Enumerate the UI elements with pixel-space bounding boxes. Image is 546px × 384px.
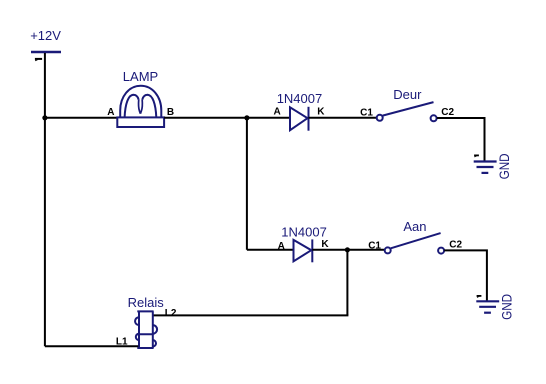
svg-text:C2: C2 [449,239,462,250]
wire: bottom horizontal from rail to relay L1 [45,345,138,347]
node junction branch to second row [244,115,249,120]
switch Deur lever [383,102,434,116]
svg-text:Relais: Relais [128,295,165,310]
ground GND2 pin number 1 (rotated) [477,295,482,297]
svg-text:LAMP: LAMP [123,69,158,84]
pin number 1 of +12V (rotated) [35,58,42,60]
wire: Aan C2 to GND2 corner [444,250,487,300]
ground GND1 symbol bars [474,162,497,173]
wire: row2 horizontal from branch to diode D2 anode [247,249,294,251]
wire: lamp B to diode D1 anode [164,117,290,119]
switch Aan lever [391,233,441,248]
svg-text:K: K [317,107,325,118]
svg-text:+12V: +12V [30,28,61,43]
svg-text:A: A [274,107,281,118]
svg-text:1N4007: 1N4007 [281,224,327,239]
ground GND2 symbol bars [476,301,499,312]
svg-text:GND: GND [496,153,512,179]
svg-text:A: A [278,241,285,252]
svg-text:Aan: Aan [403,219,426,234]
relay coil K1 symbol [135,311,157,348]
diode D2 symbol [294,239,313,262]
svg-text:Deur: Deur [393,87,422,102]
wire: branch vertical from junction down to row 2 [246,118,248,250]
svg-text:A: A [107,107,114,118]
svg-text:K: K [321,239,329,250]
node junction to relay feed [345,247,350,252]
wire: D2 cathode to switch Aan C1 [312,249,384,251]
power +12V bar symbol [31,51,61,53]
node junction at rail / top wire [42,115,47,120]
lamp LAMP symbol [117,86,164,127]
svg-text:GND: GND [498,294,514,320]
diode D1 symbol [290,107,309,131]
switch Deur contact circles [377,115,383,121]
ground GND1 pin number 1 (rotated) [474,154,479,156]
svg-text:1N4007: 1N4007 [277,91,323,106]
wire: top horizontal from rail to lamp A [45,117,117,119]
wire: left vertical rail from +12V down to bottom [44,53,46,346]
wire: vertical from junction down to relay L2 level [346,250,348,316]
wire: Deur C2 to GND1 corner [437,118,485,161]
svg-text:B: B [167,107,174,118]
switch Aan contact circles [385,247,391,253]
wire: D1 cathode to switch Deur C1 [309,117,377,119]
wire: horizontal from relay L2 to vertical [152,314,348,316]
svg-text:C1: C1 [360,108,373,119]
svg-text:C1: C1 [368,240,381,251]
svg-text:C2: C2 [441,107,454,118]
svg-text:L2: L2 [165,308,177,319]
